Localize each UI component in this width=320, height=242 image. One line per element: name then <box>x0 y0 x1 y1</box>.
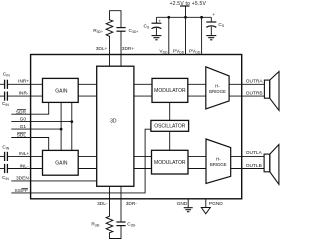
ground GND <box>184 208 193 212</box>
wire INR+ input <box>0 83 4 85</box>
wire GND pin <box>187 199 189 208</box>
wire OUTRB <box>229 95 264 97</box>
wire GAIN2 to 3D row2 <box>78 168 97 170</box>
node VDD <box>167 16 170 19</box>
svg-text:3D: 3D <box>110 118 117 124</box>
wire MOD2 to HB2 row1 <box>188 155 206 157</box>
svg-text:MODULATOR: MODULATOR <box>154 88 186 94</box>
svg-text:CS: CS <box>218 22 224 28</box>
svg-text:OUTRB: OUTRB <box>246 90 263 96</box>
svg-text:C3D-: C3D- <box>127 221 136 227</box>
svg-text:+: + <box>212 13 215 18</box>
capacitor CS left <box>155 17 157 23</box>
wire R3D+ top to join <box>110 11 122 28</box>
oscillator block <box>151 120 189 131</box>
node PVDD2 <box>200 16 203 19</box>
svg-text:GND: GND <box>177 201 188 207</box>
svg-text:CIN: CIN <box>3 72 10 78</box>
svg-text:INR+: INR+ <box>18 79 29 85</box>
wire GAIN1 to 3D row1 <box>78 83 97 85</box>
wire R3D- bottom to join <box>110 226 122 239</box>
ground PGND triangle <box>201 208 210 214</box>
wire PVDD pin 2 <box>201 17 203 54</box>
capacitor C3D+ <box>116 28 125 32</box>
wire INR- to GAIN <box>7 95 42 97</box>
svg-text:INL+: INL+ <box>19 151 29 157</box>
svg-text:SS/FF: SS/FF <box>15 188 29 194</box>
wire gain-select vertical pin3 <box>71 102 73 150</box>
svg-text:BRIDGE: BRIDGE <box>210 162 227 167</box>
svg-text:GAIN: GAIN <box>55 161 68 167</box>
svg-text:CIN: CIN <box>2 175 9 181</box>
svg-text:BRIDGE: BRIDGE <box>209 89 226 94</box>
svg-text:PGND: PGND <box>209 201 223 207</box>
IC outer boundary box <box>31 55 242 199</box>
supply feed bar <box>180 5 190 7</box>
svg-text:3DEN: 3DEN <box>16 176 29 182</box>
svg-text:R3D+: R3D+ <box>93 28 103 34</box>
wire oscillator to MOD1 <box>169 102 171 120</box>
svg-text:H-: H- <box>216 157 221 162</box>
wire 3D to MOD1 row2 <box>134 95 152 97</box>
wire 3DR+ pin <box>120 31 122 66</box>
svg-text:INR-: INR- <box>19 90 29 96</box>
svg-text:+: + <box>158 20 161 25</box>
wire OUTLB <box>231 168 264 170</box>
svg-text:G0: G0 <box>20 117 27 123</box>
wire INL- input <box>0 168 4 170</box>
svg-text:SDR: SDR <box>16 109 27 115</box>
wire PGND pin <box>205 199 207 208</box>
wire VDD pin <box>168 17 170 54</box>
wire GAIN2 to 3D row1 <box>78 155 97 157</box>
3D audio block <box>97 66 134 186</box>
wire gain-select vertical pin2 <box>60 102 62 150</box>
wire SS/FF to oscillator <box>11 129 151 193</box>
resistor R3D+ <box>106 20 113 38</box>
wire INL+ to GAIN <box>7 155 42 157</box>
wire 3D to MOD2 row1 <box>134 155 152 157</box>
wire 3DL- pin <box>109 186 111 215</box>
svg-text:CIN: CIN <box>2 101 9 107</box>
wire INR- input <box>0 95 4 97</box>
wire G0 <box>11 121 72 123</box>
wire 3D to MOD1 row1 <box>134 83 152 85</box>
capacitor CIN (INL-) <box>5 164 8 173</box>
svg-text:SDL: SDL <box>17 133 27 139</box>
wire 3DR- pin <box>120 186 122 222</box>
svg-text:PVDD: PVDD <box>173 48 185 54</box>
wire 3D to MOD2 row2 <box>134 168 152 170</box>
svg-text:+2.5V to +5.5V: +2.5V to +5.5V <box>170 1 207 7</box>
svg-text:VDD: VDD <box>159 48 168 54</box>
modulator block lower <box>152 150 189 174</box>
wire MOD1 to HB1 row2 <box>188 95 206 97</box>
svg-text:H-: H- <box>215 84 220 89</box>
capacitor C3D- <box>116 222 125 226</box>
gain block lower (left channel) <box>43 150 79 175</box>
capacitor CIN (INR-) <box>5 92 8 101</box>
node G0 junction <box>70 120 73 123</box>
svg-text:OUTLA: OUTLA <box>246 150 263 156</box>
capacitor CIN (INR+) <box>5 80 8 89</box>
wire 3DEN <box>11 180 96 182</box>
gain block upper (right channel) <box>43 78 79 102</box>
node G1 junction <box>60 128 63 131</box>
svg-text:MODULATOR: MODULATOR <box>154 160 186 166</box>
wire SDL <box>11 138 48 151</box>
wire INL+ input <box>0 155 4 157</box>
node PVDD1 <box>184 16 187 19</box>
ground CS right <box>206 36 216 40</box>
wire OUTLA <box>231 155 264 157</box>
wire OUTRA <box>229 83 264 85</box>
speaker right channel <box>264 80 269 98</box>
capacitor CS right <box>210 17 212 21</box>
wire INL- to GAIN <box>7 168 42 170</box>
svg-text:OUTRA: OUTRA <box>246 79 264 85</box>
resistor R3D- <box>106 215 113 233</box>
svg-text:G1: G1 <box>20 124 27 130</box>
speaker left channel <box>264 154 270 172</box>
svg-text:OUTLB: OUTLB <box>246 163 262 169</box>
svg-text:C3D+: C3D+ <box>129 28 139 34</box>
wire SDR <box>11 102 48 114</box>
wire oscillator to MOD2 <box>169 131 171 150</box>
svg-text:INL-: INL- <box>19 163 28 169</box>
supply rail <box>156 16 211 18</box>
H-bridge upper <box>206 67 229 109</box>
svg-text:R3D-: R3D- <box>91 221 100 227</box>
svg-text:OSCILLATOR: OSCILLATOR <box>154 124 186 130</box>
svg-text:CS: CS <box>144 24 150 30</box>
wire GAIN1 to 3D row2 <box>78 95 97 97</box>
capacitor CIN (INL+) <box>5 152 8 161</box>
H-bridge lower <box>206 139 231 184</box>
wire G1 <box>11 128 61 130</box>
svg-text:PVDD: PVDD <box>189 48 201 54</box>
svg-text:3DL-: 3DL- <box>97 201 108 207</box>
svg-text:GAIN: GAIN <box>55 88 68 94</box>
wire MOD2 to HB2 row2 <box>188 168 206 170</box>
svg-text:3DL+: 3DL+ <box>96 46 108 52</box>
wire 3DL+ pin <box>109 38 111 67</box>
ground CS left <box>152 36 162 40</box>
wire supply feed <box>185 6 187 17</box>
wire INR+ to GAIN <box>7 83 42 85</box>
modulator block upper <box>152 78 188 102</box>
svg-text:3DR-: 3DR- <box>126 201 138 207</box>
wire PVDD pin 1 <box>185 17 187 54</box>
svg-text:CIN: CIN <box>2 145 9 151</box>
wire MOD1 to HB1 row1 <box>188 83 206 85</box>
svg-text:3DR+: 3DR+ <box>122 46 135 52</box>
